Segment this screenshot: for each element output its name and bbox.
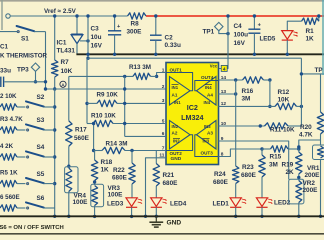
wire pin13 feedback — [219, 93, 236, 95]
wire S6 to ground bus — [54, 208, 56, 216]
op-amp IC2 LM324 body — [166, 63, 219, 165]
capacitor C2 — [150, 34, 162, 36]
wire R21 to LED4 — [155, 186, 157, 198]
resistor R4 row — [0, 154, 17, 160]
wire select bus — [54, 89, 56, 208]
svg-text:3M: 3M — [269, 162, 278, 169]
resistor R16 — [243, 77, 264, 83]
wire S2 left — [17, 106, 25, 108]
preset VR4 — [66, 168, 72, 192]
wire feedback drop — [124, 76, 126, 136]
wire R23 to LED2 — [261, 177, 263, 198]
wire R24 chain — [235, 80, 237, 166]
svg-text:200E: 200E — [303, 187, 319, 194]
frame border — [0, 0, 324, 2]
wire VR4 chain top — [68, 76, 70, 120]
svg-text:GND: GND — [167, 219, 182, 226]
svg-text:LM324: LM324 — [181, 113, 203, 122]
wire S5 right — [44, 183, 55, 185]
wire pin10 row — [219, 125, 265, 127]
svg-text:OUT3: OUT3 — [201, 151, 214, 156]
wire S3 right — [44, 129, 55, 131]
wire V+ red rail — [146, 15, 324, 17]
wire R15 row — [262, 148, 271, 150]
svg-text:16V: 16V — [234, 40, 246, 47]
svg-text:IN2: IN2 — [172, 124, 179, 129]
svg-text:TL431: TL431 — [57, 48, 76, 55]
wire R19 to VR2 — [298, 174, 300, 181]
svg-text:R16: R16 — [242, 88, 254, 95]
wire bottom ground bus — [0, 215, 324, 217]
wire pin1 to R13 — [157, 73, 166, 77]
resistor R19 — [296, 152, 302, 174]
svg-text:C3: C3 — [91, 26, 100, 33]
svg-text:IN3: IN3 — [203, 139, 210, 144]
wire IC1 ref — [80, 40, 88, 42]
wire C3 top — [114, 16, 116, 31]
svg-text:TP1: TP1 — [203, 29, 215, 36]
wire S4 left — [17, 156, 25, 158]
wire R13 row — [69, 75, 133, 77]
led LED3 — [126, 198, 137, 207]
ground symbol — [155, 216, 157, 221]
resistor R14 — [102, 147, 125, 153]
svg-text:IN1: IN1 — [172, 85, 179, 90]
wire S6 right — [44, 207, 55, 209]
resistor R11 — [265, 123, 289, 129]
wire pin11 to ground — [146, 158, 167, 217]
wire LED3 cathode — [131, 207, 133, 216]
node Vref terminal — [6, 14, 10, 18]
node R22 top — [130, 149, 133, 152]
wire R10 row — [87, 123, 93, 125]
svg-text:R12: R12 — [278, 89, 290, 96]
switch S4 — [26, 156, 28, 158]
wire C2 top — [155, 16, 157, 35]
svg-text:S6: S6 — [37, 195, 45, 202]
switch S2 — [26, 106, 28, 108]
resistor R10 — [93, 120, 113, 126]
resistor R9 — [97, 100, 117, 106]
resistor R12 — [275, 103, 297, 109]
svg-text:R22: R22 — [113, 167, 125, 174]
svg-text:IN4: IN4 — [204, 100, 211, 105]
svg-text:100u: 100u — [234, 32, 249, 39]
resistor R3 row — [0, 127, 17, 133]
svg-text:R14 3M: R14 3M — [106, 140, 128, 147]
svg-text:IC2: IC2 — [187, 103, 198, 112]
node A symbol — [60, 81, 66, 87]
capacitor C4 — [248, 28, 260, 30]
wire R13 right — [151, 75, 157, 77]
wire pin14 row — [219, 79, 243, 81]
preset VR1 — [313, 145, 324, 160]
svg-text:C2: C2 — [165, 35, 174, 42]
wire R24 to LED1 — [235, 184, 237, 198]
wire node A row — [46, 88, 167, 90]
svg-text:10K: 10K — [61, 68, 73, 75]
resistor R18 — [94, 151, 96, 161]
node W1 start — [86, 57, 89, 60]
svg-text:6 560E: 6 560E — [0, 194, 20, 201]
wire C2 bottom — [155, 40, 157, 54]
wire S6 left — [17, 207, 25, 209]
svg-text:LED3: LED3 — [107, 201, 124, 208]
svg-text:4 2K: 4 2K — [0, 143, 14, 150]
svg-text:IC1: IC1 — [57, 40, 67, 47]
switch S3 — [26, 129, 28, 131]
wire R14 row — [94, 150, 102, 152]
svg-text:R13 3M: R13 3M — [129, 64, 151, 71]
wire LED4 cathode — [155, 207, 157, 216]
wire LED2 cathode — [261, 207, 263, 216]
wire TP3 to upper row — [35, 71, 37, 81]
wire VR1 to ground bus — [320, 160, 322, 217]
svg-text:4.7K: 4.7K — [299, 132, 313, 139]
led LED2 — [256, 198, 267, 207]
wire R20 riser — [320, 74, 322, 112]
led LED5 — [282, 31, 293, 40]
resistor R20 — [317, 112, 323, 134]
node A junction — [53, 87, 56, 90]
wire TP1 stem — [219, 31, 228, 34]
wire R17 to VR4 — [68, 146, 70, 167]
svg-text:560E: 560E — [74, 135, 90, 142]
svg-text:R20: R20 — [300, 124, 312, 131]
svg-text:1K: 1K — [101, 167, 110, 174]
wire TP2 branch — [301, 73, 324, 75]
wire pin12 row — [219, 105, 276, 107]
pin 4 — [221, 65, 227, 71]
svg-text:OUT1: OUT1 — [170, 68, 183, 73]
wire node A upper row — [4, 81, 45, 83]
svg-text:OUT4: OUT4 — [201, 75, 214, 80]
svg-text:R17: R17 — [75, 127, 87, 134]
svg-text:TP: TP — [315, 67, 324, 74]
svg-text:R8: R8 — [131, 21, 140, 28]
svg-text:R10 10K: R10 10K — [91, 113, 116, 120]
wire C3 bottom — [114, 35, 116, 55]
wire R16 to R12 drop — [269, 80, 271, 106]
svg-text:S1: S1 — [21, 36, 29, 43]
resistor R8 — [128, 13, 147, 19]
svg-text:R7: R7 — [61, 59, 70, 66]
switch S1 — [17, 30, 19, 32]
capacitor C3 — [108, 30, 121, 32]
svg-text:C1: C1 — [0, 44, 8, 51]
wire reference row W1 — [88, 57, 301, 59]
svg-text:A2: A2 — [172, 131, 178, 136]
wire R7 to node A — [54, 77, 56, 89]
svg-text:R21: R21 — [163, 172, 175, 179]
op-amp A2 — [170, 121, 191, 150]
svg-text:A3: A3 — [207, 131, 213, 136]
testpoint TP3 — [31, 63, 39, 71]
wire pin9 to VR2 wiper — [219, 141, 289, 180]
svg-text:200E: 200E — [305, 172, 321, 179]
node R14 left — [92, 149, 95, 152]
svg-text:S4: S4 — [37, 144, 45, 151]
preset VR2 — [296, 181, 302, 203]
switch S6 — [26, 207, 28, 209]
svg-text:A4: A4 — [207, 93, 213, 98]
svg-text:0.33u: 0.33u — [165, 42, 181, 49]
resistor R15 — [271, 146, 289, 152]
wire VR3 to ground bus — [94, 206, 96, 217]
wire LED5 cathode — [286, 40, 288, 54]
resistor R7 — [52, 60, 58, 77]
wire Vref stem — [54, 16, 56, 60]
svg-text:300E: 300E — [127, 28, 143, 35]
wire S2 right — [44, 106, 55, 108]
svg-text:LED4: LED4 — [170, 201, 187, 208]
svg-text:Vcc: Vcc — [210, 64, 218, 69]
svg-text:S5: S5 — [37, 171, 45, 178]
led LED4 — [151, 198, 162, 207]
svg-text:R11 10K: R11 10K — [270, 127, 295, 134]
svg-text:VR1: VR1 — [307, 165, 320, 172]
svg-text:LED1: LED1 — [213, 201, 230, 208]
preset VR3 — [92, 186, 98, 206]
svg-text:2 10K: 2 10K — [0, 93, 17, 100]
wire R18 to VR3 — [94, 181, 96, 186]
svg-text:100E: 100E — [73, 199, 89, 206]
svg-text:3M: 3M — [242, 96, 251, 103]
resistor R2 row — [0, 104, 17, 110]
wire S1 to node A drop — [34, 31, 45, 33]
svg-text:1K: 1K — [306, 36, 315, 43]
wire C4 top — [253, 16, 255, 29]
wire R10 to R14 drop — [93, 124, 95, 151]
svg-text:VR2: VR2 — [303, 180, 316, 187]
testpoint TP1 — [215, 22, 223, 30]
svg-text:IN2: IN2 — [173, 139, 180, 144]
resistor R24 — [233, 166, 239, 184]
resistor R6 row — [0, 205, 17, 211]
svg-text:16V: 16V — [91, 43, 103, 50]
svg-text:R15: R15 — [270, 154, 282, 161]
wire S3 left — [17, 129, 25, 131]
wire VR2 to ground bus — [298, 203, 300, 217]
wire R9 row — [87, 102, 97, 104]
wire S1 drop — [45, 32, 47, 89]
svg-text:4: 4 — [223, 66, 226, 72]
wire Vcc riser to pin4 — [219, 16, 229, 69]
svg-text:R18: R18 — [101, 159, 113, 166]
svg-text:S2: S2 — [37, 94, 45, 101]
wire Vref to IC1 — [76, 16, 78, 34]
resistor R22 — [131, 151, 133, 164]
wire pin6 row — [125, 135, 166, 137]
wire Vref rail — [10, 15, 127, 17]
op-amp A3 — [197, 121, 217, 150]
resistor R5 row — [0, 180, 17, 186]
led LED1 — [230, 198, 241, 207]
wire C4 bottom — [253, 33, 255, 54]
wire S1 input — [0, 31, 18, 33]
svg-text:R9 10K: R9 10K — [97, 92, 119, 99]
svg-text:K THERMISTOR: K THERMISTOR — [0, 53, 48, 60]
svg-text:R19: R19 — [282, 162, 294, 169]
op-amp A1 — [170, 77, 191, 106]
svg-text:S6 = ON / OFF SWITCH: S6 = ON / OFF SWITCH — [0, 225, 64, 231]
svg-text:R3 4.7K: R3 4.7K — [0, 116, 23, 123]
wire pin8 jog — [219, 149, 263, 157]
resistor R1 — [302, 18, 319, 24]
wire pin7 to R21 — [155, 151, 157, 164]
wire S5 left — [17, 183, 25, 185]
wire R12 right — [297, 105, 302, 107]
svg-text:R23: R23 — [242, 164, 254, 171]
svg-text:TP3: TP3 — [17, 67, 29, 74]
svg-text:680E: 680E — [112, 175, 128, 182]
svg-text:680E: 680E — [213, 179, 229, 186]
resistor R17 — [66, 121, 72, 147]
svg-text:A1: A1 — [172, 93, 178, 98]
svg-text:10K: 10K — [278, 97, 290, 104]
wire W1 to R12 drop — [300, 58, 302, 126]
wire S4 right — [44, 156, 55, 158]
wire R20 to R19 — [299, 134, 321, 152]
svg-text:R1: R1 — [306, 28, 315, 35]
regulator IC1 TL431 — [71, 33, 83, 35]
resistor R21 — [153, 164, 159, 187]
op-amp A4 — [197, 77, 217, 106]
node pin6 feedback crossing — [123, 122, 126, 125]
wire R1 riser — [318, 16, 320, 21]
resistor R13 — [133, 73, 151, 79]
wire R1 to LED5 — [287, 21, 301, 30]
svg-text:Vref ≈ 2.5V: Vref ≈ 2.5V — [44, 8, 77, 15]
switch S5 — [26, 182, 28, 184]
svg-text:GND: GND — [171, 156, 182, 162]
wire Vref to ref node — [87, 16, 89, 58]
wire upper ground bus — [76, 53, 324, 55]
wire Vref drop x87 — [86, 58, 88, 123]
svg-text:33u: 33u — [0, 68, 11, 75]
wire LED1 cathode — [235, 207, 237, 216]
capacitor C1 plates — [0, 77, 2, 87]
svg-text:10u: 10u — [91, 34, 102, 41]
svg-text:IN4: IN4 — [205, 85, 212, 90]
svg-text:IN1: IN1 — [174, 100, 181, 105]
svg-text:680E: 680E — [163, 180, 179, 187]
resistor R23 — [261, 149, 263, 155]
svg-text:2K: 2K — [286, 169, 295, 176]
node R9 left — [85, 102, 88, 105]
wire R16 right — [264, 79, 270, 81]
svg-text:LED5: LED5 — [260, 36, 276, 43]
wire R22 to LED3 — [131, 184, 133, 198]
svg-text:R5 1K: R5 1K — [0, 169, 18, 176]
svg-text:C4: C4 — [234, 23, 243, 30]
svg-text:A: A — [61, 82, 65, 88]
svg-text:IN3: IN3 — [204, 124, 211, 129]
svg-text:2: 2 — [162, 84, 165, 90]
wire R11 right — [288, 125, 301, 127]
svg-text:100E: 100E — [108, 192, 124, 199]
svg-text:680E: 680E — [241, 172, 257, 179]
wire IC1 anode — [76, 44, 78, 55]
wire VR4 to ground bus — [68, 192, 70, 217]
svg-text:S3: S3 — [37, 117, 45, 124]
svg-text:OUT2: OUT2 — [170, 151, 183, 156]
svg-text:R24: R24 — [214, 171, 226, 178]
